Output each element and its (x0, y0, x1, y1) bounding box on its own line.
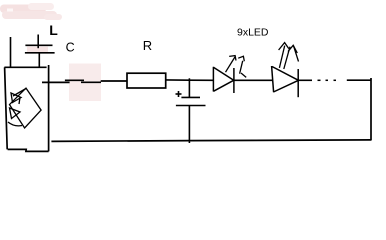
watermark scribble (0, 3, 62, 20)
wire: right vertical (370, 78, 372, 140)
node junction at capacitor tap (188, 78, 190, 97)
wire: left mains lead (10, 37, 12, 67)
wire: bottom return (51, 140, 371, 142)
svg-text:L: L (49, 22, 58, 38)
LED D2 arrows (279, 43, 299, 69)
svg-text:R: R (143, 38, 152, 53)
capacitor C2 electrolytic (176, 91, 206, 143)
LED D2 (272, 66, 299, 97)
resistor R (127, 73, 166, 88)
LED D1 (213, 67, 234, 93)
wire segment B (65, 79, 84, 81)
highlight box on input wire (69, 64, 101, 102)
wire: resistor to LED1 (166, 79, 214, 81)
wire: LED1 to LED2 (234, 79, 272, 81)
ellipsis dots (318, 79, 337, 81)
bridge diodes symbol (8, 88, 41, 128)
svg-text:C: C (66, 40, 75, 54)
LED D1 arrows (226, 56, 247, 78)
wire segment C (81, 81, 101, 83)
wire segment D (to resistor) (101, 80, 128, 82)
svg-text:9xLED: 9xLED (237, 27, 269, 39)
wire segment A (box to highlight) (42, 81, 70, 83)
capacitor L (25, 35, 55, 68)
wire: LED2 to dots (298, 79, 312, 81)
highlight smudge between L plates (27, 47, 48, 53)
wire: dots to right corner (347, 79, 371, 81)
bridge rectifier box U1 (4, 65, 48, 151)
